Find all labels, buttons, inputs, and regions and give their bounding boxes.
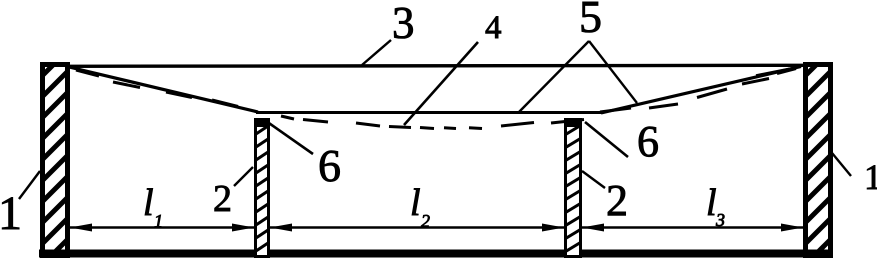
label l1 xyxy=(143,182,163,231)
svg-text:6: 6 xyxy=(637,117,659,166)
tank bottom xyxy=(39,250,832,258)
svg-text:4: 4 xyxy=(485,10,502,46)
svg-text:l: l xyxy=(706,182,717,224)
leader for label 4 xyxy=(404,42,478,125)
leader for label 1 left xyxy=(19,171,40,199)
surface line 5 left descending xyxy=(69,67,258,112)
leader for label 6 left xyxy=(266,121,313,154)
leader for label 2 left xyxy=(234,167,253,186)
svg-text:2: 2 xyxy=(421,211,430,231)
svg-text:1: 1 xyxy=(154,211,163,231)
surface line 5 right rising xyxy=(601,67,801,114)
surface line 5 middle horizontal xyxy=(256,111,603,114)
svg-text:2: 2 xyxy=(213,178,232,220)
leader for label 5 right leg xyxy=(589,41,637,103)
leader for label 3 xyxy=(362,40,391,65)
leader for label 1 right xyxy=(832,153,851,176)
wall 1 left xyxy=(38,43,75,261)
svg-text:l: l xyxy=(410,182,421,224)
svg-text:1: 1 xyxy=(0,187,22,240)
top line 3 xyxy=(68,65,805,66)
svg-text:2: 2 xyxy=(606,176,628,225)
wall 1 right xyxy=(801,43,838,261)
svg-text:3: 3 xyxy=(392,0,415,48)
leader for label 5 left leg xyxy=(519,41,589,112)
svg-text:3: 3 xyxy=(715,210,725,230)
svg-text:l: l xyxy=(143,182,154,224)
label l3 xyxy=(706,182,725,230)
svg-text:6: 6 xyxy=(318,140,341,191)
label l2 xyxy=(410,182,430,231)
dimension line l1 xyxy=(70,224,254,232)
leader for label 2 right xyxy=(582,171,605,188)
dimension line l2 xyxy=(270,224,564,232)
svg-text:1: 1 xyxy=(864,157,877,197)
leader for label 6 right xyxy=(585,122,628,157)
baffle 2 left xyxy=(253,118,271,261)
svg-text:5: 5 xyxy=(579,0,602,42)
dimension line l3 xyxy=(582,224,803,232)
barb near right wall corner xyxy=(756,68,796,76)
dashed curve 4 xyxy=(76,69,796,129)
baffle 2 right xyxy=(563,118,583,261)
